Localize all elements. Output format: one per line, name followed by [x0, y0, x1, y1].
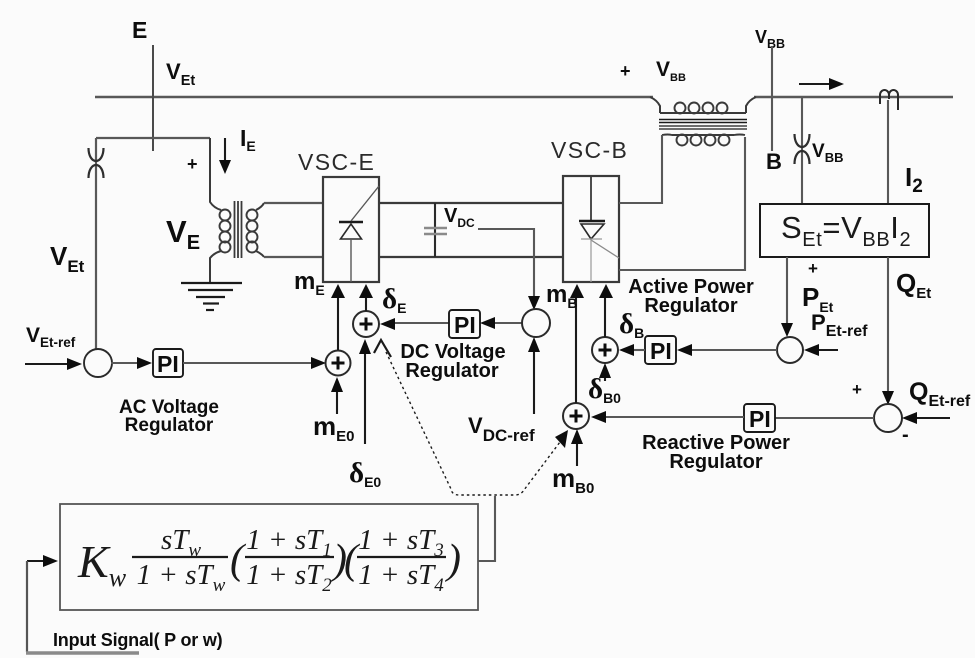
PT symbol on V_Et line — [89, 148, 104, 178]
VSC-B diagonal — [591, 240, 619, 258]
VSC-E valve bar — [339, 221, 363, 223]
open arrowhead at delta_E — [374, 340, 391, 357]
wire: DC PI to delta_E node — [395, 322, 449, 324]
arrow input into damping block — [27, 560, 44, 562]
svg-text:Regulator: Regulator — [669, 451, 763, 473]
VSC-B apex tick — [581, 238, 602, 240]
block damping controller — [60, 504, 478, 610]
wire: P_Et drop — [786, 257, 788, 324]
svg-text:SEt=VBBI2: SEt=VBBI2 — [781, 210, 911, 251]
summing node P — [777, 337, 803, 363]
svg-text:1 + sT2: 1 + sT2 — [246, 559, 332, 596]
svg-text:1 + sT1: 1 + sT1 — [246, 524, 331, 561]
wire: TE to VSC-E top — [264, 202, 323, 204]
wire: PI to delta_B node — [633, 349, 645, 351]
transformer TB core — [659, 120, 747, 130]
summing node m_E — [326, 351, 351, 376]
wire: DC link bottom — [379, 256, 563, 258]
wire: I_2 measurement drop — [887, 100, 889, 204]
block PI (reactive power) — [744, 404, 775, 432]
VSC-B valve triangle — [581, 224, 604, 239]
summing node delta_B — [592, 337, 618, 363]
wire: Q node to PI — [775, 417, 874, 419]
svg-text:VSC-B: VSC-B — [551, 137, 628, 163]
converter VSC-B box — [563, 176, 619, 282]
converter VSC-E box — [323, 177, 379, 282]
VSC-E valve stem — [350, 239, 352, 282]
VSC-B lower stem — [590, 240, 592, 282]
svg-text:Regulator: Regulator — [125, 415, 214, 436]
dashed damping line to delta_E — [386, 352, 566, 495]
VSC-E valve triangle — [341, 224, 362, 239]
wire: DC link top — [379, 202, 563, 204]
svg-text:-: - — [902, 424, 909, 446]
wire: m_E up to VSC-E — [337, 297, 339, 350]
transformer TB bottom winding loops — [677, 135, 730, 146]
svg-text:E: E — [132, 17, 147, 43]
filled arrowhead at m_B0 — [555, 430, 568, 448]
capacitor C_DC — [434, 203, 436, 257]
svg-text:PI: PI — [157, 351, 179, 377]
arrow m_B0 into node — [576, 443, 578, 466]
block PI (DC voltage) — [449, 310, 480, 338]
block S_Et — [760, 204, 929, 257]
transformer TE right winding — [247, 210, 258, 253]
arrow m_E0 into node — [336, 391, 338, 414]
svg-text:Input Signal( P or w): Input Signal( P or w) — [53, 630, 223, 650]
svg-text:Regulator: Regulator — [644, 295, 738, 317]
transformer TE left winding — [220, 210, 231, 253]
svg-text:+: + — [852, 380, 862, 399]
summing node V_DC — [522, 309, 550, 337]
grey underline — [26, 651, 139, 655]
wire: damping output link — [478, 496, 495, 561]
block PI (active power) — [645, 336, 676, 364]
summing node Q — [874, 404, 902, 432]
VSC-B center stem — [590, 176, 592, 221]
PT symbol on V_BB line — [795, 134, 810, 164]
transformer TB top winding line — [660, 112, 746, 114]
wire: delta_B up to VSC-B — [604, 297, 606, 337]
wire: TE to VSC-E bottom — [264, 256, 323, 258]
VSC-E diagonal — [351, 186, 379, 221]
wire: delta_E up to VSC-E — [365, 297, 367, 311]
arrow into P node from right — [818, 349, 838, 351]
svg-text:+: + — [620, 61, 631, 81]
wire: input signal feed — [26, 561, 28, 652]
svg-text:1 + sTw: 1 + sTw — [137, 559, 226, 596]
wire: branch from bus to transformer — [96, 137, 210, 139]
wire: P node to PI — [690, 349, 777, 351]
svg-text:): ) — [445, 537, 461, 583]
svg-text:VSC-E: VSC-E — [298, 149, 375, 175]
svg-text:PI: PI — [650, 338, 672, 364]
wire: V_Et measurement drop — [95, 138, 97, 350]
arrow V_DC-ref into node — [533, 351, 535, 414]
wire: V_BB measurement drop — [801, 97, 803, 204]
transformer TE left winding bottom stub to ground — [210, 251, 221, 282]
wire: DC sum to PI — [494, 322, 522, 324]
VSC-B valve bar — [579, 220, 605, 222]
wire: TB bottom-left lead to VSC-B — [619, 135, 662, 203]
wire: Q_Et drop — [887, 257, 889, 392]
transformer TB bus dip left — [650, 97, 660, 113]
transformer TE core — [235, 201, 242, 258]
transformer TE input stub — [210, 138, 221, 210]
wire: main bus left segment — [95, 96, 653, 98]
svg-text:PI: PI — [454, 312, 476, 338]
arrow input into AC node — [25, 363, 68, 365]
arrow delta_B0 into delta_B node — [604, 377, 606, 381]
arrow delta_E0 into node — [364, 353, 366, 444]
svg-text:+: + — [187, 154, 198, 174]
transformer TB bottom winding line — [662, 134, 745, 137]
node B drop line — [771, 46, 773, 151]
node E vertical tick — [152, 45, 154, 151]
wire: PI to m_E node — [183, 362, 312, 364]
svg-text:Regulator: Regulator — [405, 360, 499, 382]
summing node m_B0 — [563, 403, 589, 429]
svg-text:1 + sT3: 1 + sT3 — [358, 524, 443, 561]
wire: PI to m_B0 node — [606, 416, 744, 418]
summing node AC — [84, 349, 112, 377]
transformer TE right winding top stub — [256, 203, 264, 210]
svg-text:B: B — [766, 149, 782, 174]
summing node delta_E — [353, 311, 379, 337]
arrow I_E — [224, 138, 226, 161]
transformer TB top winding loops — [675, 103, 728, 114]
transformer TB bus rise right — [746, 97, 756, 113]
ground — [181, 283, 242, 310]
arrow into Q node from right — [916, 417, 950, 419]
wire: m_B up to VSC-B — [575, 297, 577, 403]
arrow on bus (power flow) — [799, 83, 831, 85]
svg-text:+: + — [808, 259, 818, 278]
block PI (AC voltage) — [153, 349, 183, 377]
CT symbol on bus — [880, 90, 898, 110]
transformer TE right winding bottom stub — [256, 251, 264, 257]
svg-text:PI: PI — [749, 406, 771, 432]
wire: TB bottom-right lead to VSC-B — [619, 137, 745, 270]
wire: main bus right segment — [754, 96, 953, 98]
wire: V_DC measurement — [478, 229, 534, 297]
svg-text:1 + sT4: 1 + sT4 — [358, 559, 444, 596]
wire: AC node to PI — [111, 362, 138, 364]
